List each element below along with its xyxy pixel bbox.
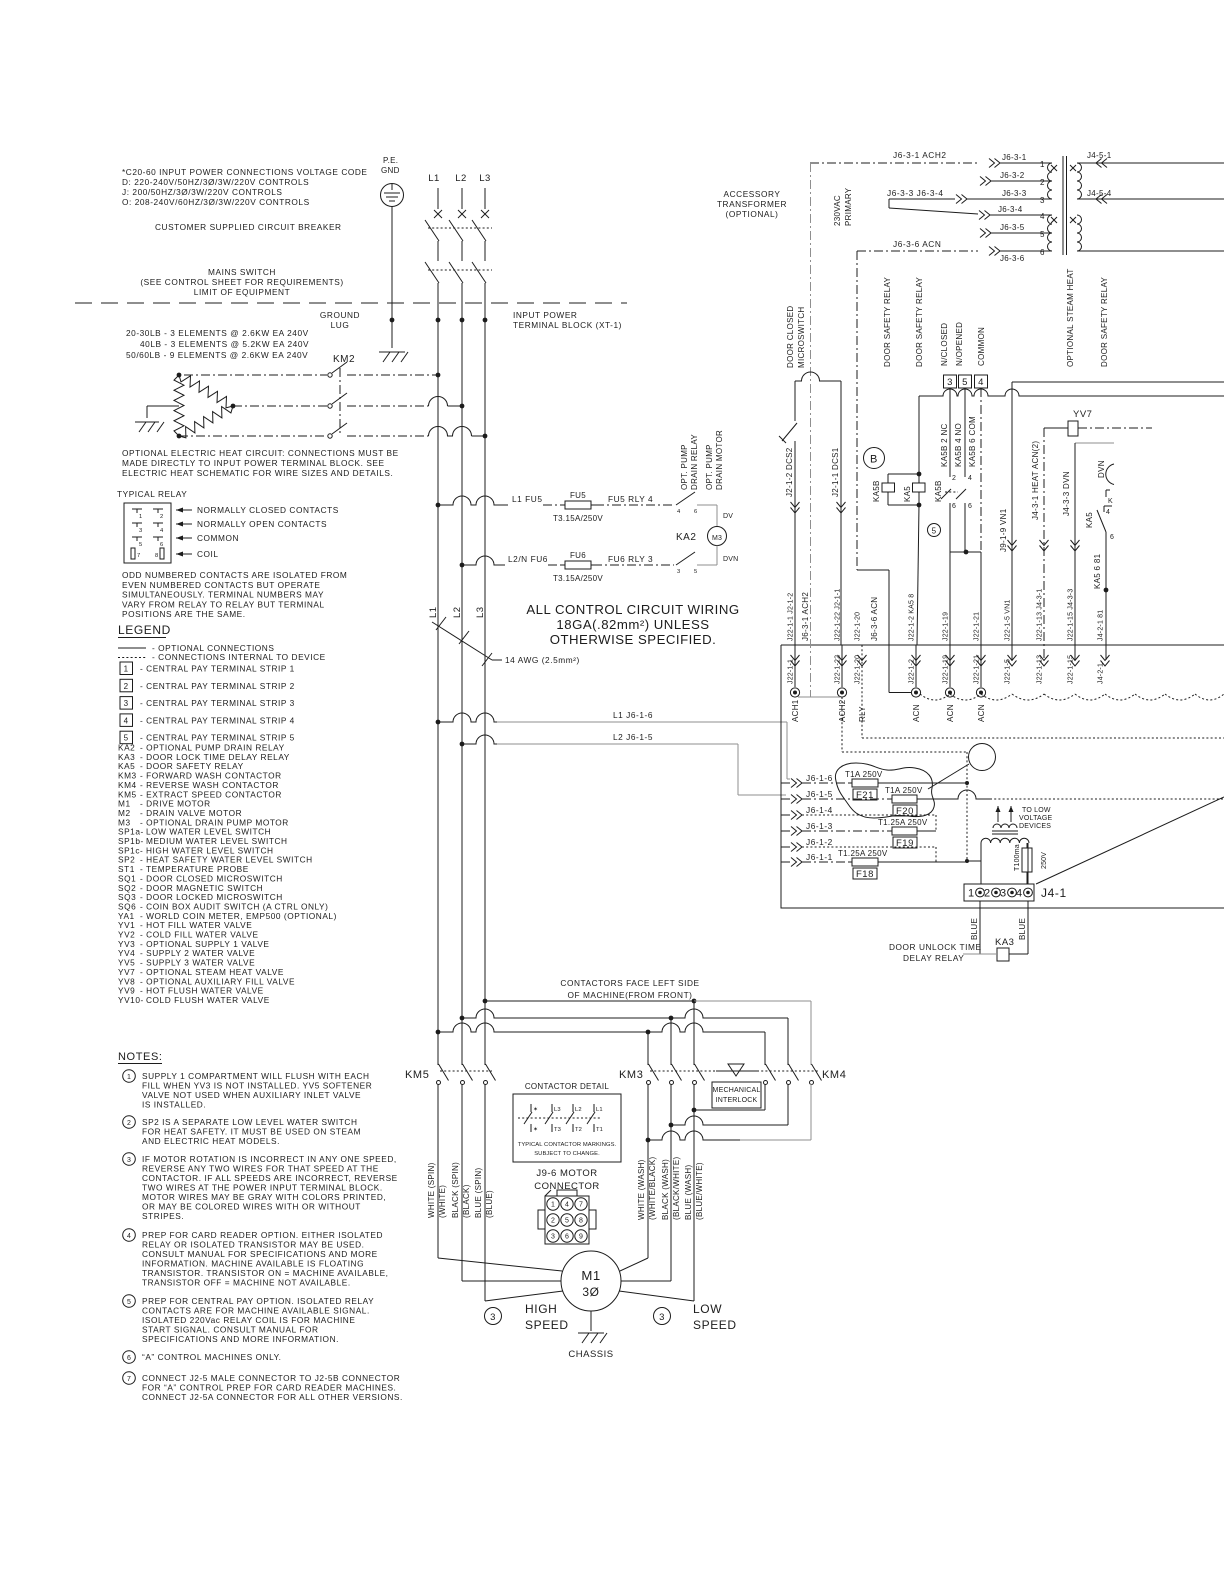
svg-text:SIMULTANEOUSLY. TERMINAL NUMBE: SIMULTANEOUSLY. TERMINAL NUMBERS MAY: [122, 590, 324, 600]
svg-text:J22-1-20: J22-1-20: [855, 655, 862, 684]
svg-text:J6-3-6 ACN: J6-3-6 ACN: [893, 239, 941, 249]
pin J4-2-1 entry chevron: [1101, 655, 1110, 666]
svg-text:GROUND: GROUND: [320, 310, 360, 320]
legend: internal connections sample: [118, 657, 146, 659]
wire ACH2 dash-dot vertical (gray): [810, 163, 812, 697]
circled number 5: [928, 524, 941, 537]
wire dash-dot to KA2 contact (row FU5): [595, 504, 674, 506]
svg-text:J22-1-15: J22-1-15: [1068, 655, 1075, 684]
fuse FU6: [565, 561, 591, 569]
svg-text:J22-1-1 J2-1-2: J22-1-1 J2-1-2: [788, 593, 795, 641]
svg-text:L1: L1: [428, 606, 439, 618]
svg-text:TRANSISTOR. TRANSISTOR ON = MA: TRANSISTOR. TRANSISTOR ON = MACHINE AVAI…: [142, 1268, 389, 1278]
pin J6-1-1 chevron: [791, 858, 802, 867]
svg-text:2: 2: [127, 1120, 131, 1127]
svg-text:NOTES:: NOTES:: [118, 1051, 163, 1063]
pin J22-1-15 entry chevron: [1071, 655, 1080, 666]
control board enclosure box: [781, 644, 1224, 646]
svg-text:MECHANICAL: MECHANICAL: [713, 1087, 761, 1094]
circled 3 low speed: [654, 1308, 671, 1325]
relay KA2 contact 4-6: [676, 492, 695, 505]
limit of equipment dashed boundary line: [75, 302, 627, 304]
svg-text:DOOR CLOSED: DOOR CLOSED: [786, 306, 795, 368]
svg-text:ACN: ACN: [946, 704, 955, 722]
svg-text:J6-3-1 ACH2: J6-3-1 ACH2: [893, 150, 947, 160]
svg-text:MAINS SWITCH: MAINS SWITCH: [208, 267, 276, 277]
svg-text:5: 5: [694, 569, 697, 575]
pin J6-3-5 chevron: [980, 229, 991, 238]
fuse F18 T1.25A 250V: [802, 861, 848, 863]
svg-text:J6-3-4: J6-3-4: [998, 205, 1023, 214]
svg-text:BLUE (SPIN): BLUE (SPIN): [474, 1168, 483, 1218]
contactor KM2 pole 2: [328, 404, 332, 408]
wire: KM2 pole3 to L3 (dash-dot, hops over L1 L2): [347, 435, 429, 437]
svg-text:START SIGNAL. CONSULT MANUAL F: START SIGNAL. CONSULT MANUAL FOR: [142, 1325, 319, 1335]
svg-text:MICROSWITCH: MICROSWITCH: [797, 306, 806, 368]
wire J4-3-1 HEAT ACN(2) dash-dot: [1043, 428, 1045, 660]
svg-text:- CONNECTIONS INTERNAL TO DEVI: - CONNECTIONS INTERNAL TO DEVICE: [152, 652, 326, 662]
wire J6-3-1 ACH2 dash-dot: [810, 162, 978, 164]
svg-text:4: 4: [1106, 509, 1110, 516]
relay coil pins 7 8: [131, 548, 135, 559]
svg-text:(SEE CONTROL SHEET FOR REQUIRE: (SEE CONTROL SHEET FOR REQUIREMENTS): [140, 277, 343, 287]
svg-text:3: 3: [490, 1312, 496, 1323]
wire J6-3-6 ACN dash-dot (top): [857, 250, 978, 252]
svg-text:DELAY RELAY: DELAY RELAY: [903, 953, 964, 963]
svg-text:T3.15A/250V: T3.15A/250V: [553, 514, 603, 523]
contactor detail box: [513, 1094, 621, 1162]
circuit breaker pole L3: [472, 220, 486, 241]
svg-text:L2: L2: [575, 1107, 582, 1113]
svg-text:N/OPENED: N/OPENED: [955, 322, 964, 366]
svg-text:7: 7: [137, 553, 140, 559]
svg-text:MADE DIRECTLY TO INPUT POWER T: MADE DIRECTLY TO INPUT POWER TERMINAL BL…: [122, 458, 385, 468]
svg-text:J22-1-13 J4-3-1: J22-1-13 J4-3-1: [1037, 589, 1044, 641]
svg-text:KA2: KA2: [676, 532, 696, 543]
svg-text:J6-3-5: J6-3-5: [1000, 223, 1025, 232]
svg-text:RELAY OR ISOLATED TRANSISTOR M: RELAY OR ISOLATED TRANSISTOR MAY BE USED…: [142, 1240, 365, 1250]
svg-text:KA5B 4 NO: KA5B 4 NO: [954, 423, 963, 467]
accessory transformer primary winding 4-6: [1048, 215, 1053, 251]
door closed microswitch SQ1: [794, 381, 796, 421]
relay legend arrow: common: [176, 537, 192, 539]
KA5B contact blades: [941, 489, 951, 499]
svg-text:J6-3-6 ACN: J6-3-6 ACN: [870, 597, 879, 641]
svg-text:2: 2: [160, 514, 163, 520]
svg-text:1: 1: [968, 888, 975, 900]
svg-text:5: 5: [124, 734, 129, 743]
circled letter B: [864, 448, 885, 469]
svg-text:T1A 250V: T1A 250V: [885, 786, 923, 795]
svg-text:OTHERWISE SPECIFIED.: OTHERWISE SPECIFIED.: [550, 632, 717, 647]
svg-text:ELECTRIC HEAT SCHEMATIC FOR WI: ELECTRIC HEAT SCHEMATIC FOR WIRE SIZES A…: [122, 468, 393, 478]
svg-text:2: 2: [551, 1218, 555, 1225]
svg-text:L2/N FU6: L2/N FU6: [508, 554, 548, 564]
wire J6-1-2 dotted: [802, 846, 936, 848]
KM3 pole outputs down to motor: [647, 1084, 649, 1258]
svg-text:OF MACHINE(FROM FRONT): OF MACHINE(FROM FRONT): [567, 990, 692, 1000]
svg-text:J4-2-1 81: J4-2-1 81: [1098, 610, 1105, 641]
pin J6-3-4 chevron: [979, 211, 990, 220]
svg-text:ALL CONTROL CIRCUIT WIRING: ALL CONTROL CIRCUIT WIRING: [526, 602, 739, 617]
svg-text:WHITE (WASH): WHITE (WASH): [637, 1159, 646, 1220]
svg-text:LEGEND: LEGEND: [118, 623, 171, 637]
svg-text:6: 6: [1110, 534, 1114, 541]
svg-text:MOTOR WIRES MAY BE GRAY WITH C: MOTOR WIRES MAY BE GRAY WITH COLORS PRIN…: [142, 1192, 386, 1202]
svg-text:DOOR SAFETY RELAY: DOOR SAFETY RELAY: [915, 276, 924, 367]
relay KA2 contact 3-5: [676, 552, 695, 565]
svg-text:- CENTRAL PAY TERMINAL STRIP 2: - CENTRAL PAY TERMINAL STRIP 2: [140, 681, 295, 691]
legend boxed terminal strip 3: [120, 697, 133, 710]
svg-text:KA5 6 81: KA5 6 81: [1093, 553, 1102, 589]
boxed terminal 5: [959, 375, 972, 388]
relay legend arrow: normally closed contacts: [176, 509, 192, 511]
note 6 circled number: [123, 1351, 136, 1364]
svg-text:OPTIONAL STEAM HEAT: OPTIONAL STEAM HEAT: [1066, 268, 1075, 367]
mains switch pole L1: [425, 262, 439, 283]
svg-text:6: 6: [694, 509, 697, 515]
svg-text:L3: L3: [479, 173, 491, 184]
svg-text:ISOLATED 220Vac RELAY COIL IS: ISOLATED 220Vac RELAY COIL IS FOR MACHIN…: [142, 1315, 355, 1325]
breaker terminal x-mark L3: [481, 210, 489, 218]
svg-text:WHITE (SPIN): WHITE (SPIN): [427, 1162, 436, 1218]
svg-text:KA5: KA5: [903, 486, 912, 502]
contactor KM5 pole 1: [437, 1081, 441, 1085]
wire stubs at pins: [794, 645, 796, 687]
svg-text:FU6: FU6: [570, 551, 586, 560]
callout blob around F21 F20: [835, 763, 934, 818]
wire J4-3-3 DVN: [1075, 442, 1114, 444]
svg-text:KA5B: KA5B: [872, 480, 881, 502]
connector J9-6 pins 1-9: [547, 1198, 559, 1210]
svg-text:J6-3-1 ACH2: J6-3-1 ACH2: [801, 592, 810, 641]
svg-text:GND: GND: [381, 166, 400, 175]
circled 3 high speed: [485, 1308, 502, 1325]
svg-text:VARY FROM RELAY TO RELAY BUT T: VARY FROM RELAY TO RELAY BUT TERMINAL: [122, 599, 325, 609]
svg-text:4: 4: [968, 475, 972, 482]
wire dash-dot to KA2 contact (row FU6): [593, 564, 674, 566]
svg-text:M1: M1: [581, 1268, 600, 1283]
wire: L1 tap to FU5 (hops L2,L3): [436, 503, 441, 508]
svg-text:BLACK (WASH): BLACK (WASH): [661, 1159, 670, 1220]
svg-text:J6-1-4: J6-1-4: [806, 805, 833, 815]
svg-text:- CENTRAL PAY TERMINAL STRIP 1: - CENTRAL PAY TERMINAL STRIP 1: [140, 664, 295, 674]
festoon dotted arcs along terminal row: [920, 694, 1224, 700]
wire: incoming lead L3: [484, 188, 486, 209]
svg-text:20-30LB - 3 ELEMENTS @ 2.6KW E: 20-30LB - 3 ELEMENTS @ 2.6KW EA 240V: [126, 328, 309, 338]
svg-text:LIMIT OF EQUIPMENT: LIMIT OF EQUIPMENT: [194, 287, 290, 297]
pin J22-1-19 entry chevron: [946, 655, 955, 666]
svg-text:CHASSIS: CHASSIS: [568, 1349, 613, 1360]
terminal ACN circle: [911, 688, 920, 697]
svg-text:6: 6: [952, 503, 956, 510]
svg-text:KA5: KA5: [1085, 512, 1094, 528]
svg-text:CONTACTOR. IF ALL SPEEDS ARE I: CONTACTOR. IF ALL SPEEDS ARE INCORRECT, …: [142, 1173, 398, 1183]
wire secondary bottom: [1077, 250, 1224, 252]
svg-text:- CENTRAL PAY TERMINAL STRIP 5: - CENTRAL PAY TERMINAL STRIP 5: [140, 733, 295, 743]
svg-text:IF MOTOR ROTATION IS INCORRECT: IF MOTOR ROTATION IS INCORRECT IN ANY ON…: [142, 1154, 397, 1164]
wire J4-5-4: [1077, 198, 1224, 200]
svg-text:KM2: KM2: [333, 354, 355, 365]
svg-text:L1: L1: [428, 173, 440, 184]
svg-text:1: 1: [139, 514, 142, 520]
note 2 circled number: [123, 1116, 136, 1129]
motor M1 wires from KM3: [620, 1258, 648, 1271]
legend boxed terminal strip 4: [120, 714, 133, 727]
mechanical interlock symbol: [716, 1070, 757, 1072]
svg-text:NORMALLY OPEN CONTACTS: NORMALLY OPEN CONTACTS: [197, 519, 327, 529]
wire gauge marker 14 AWG: [432, 622, 492, 660]
svg-text:L2: L2: [452, 606, 463, 618]
svg-text:J22-1-21: J22-1-21: [974, 612, 981, 641]
svg-text:J6-1-6: J6-1-6: [806, 773, 833, 783]
accessory transformer secondary winding 2: [1077, 215, 1082, 251]
legend boxed terminal strip 1: [120, 662, 133, 675]
svg-text:J4-1: J4-1: [1041, 886, 1067, 900]
relay coil KA5: [913, 483, 926, 492]
svg-text:LUG: LUG: [331, 320, 350, 330]
svg-text:DOOR SAFETY RELAY: DOOR SAFETY RELAY: [1100, 276, 1109, 367]
svg-text:ACH1: ACH1: [791, 699, 800, 722]
svg-text:DVN: DVN: [1097, 460, 1106, 478]
pin J6-1-6 chevron: [791, 779, 802, 788]
svg-text:(BLACK): (BLACK): [462, 1184, 471, 1218]
circuit breaker pole L2: [449, 220, 463, 241]
svg-text:ACCESSORY: ACCESSORY: [724, 189, 781, 199]
svg-text:T3.15A/250V: T3.15A/250V: [553, 574, 603, 583]
svg-text:J6-3-6: J6-3-6: [1000, 254, 1025, 263]
svg-text:9: 9: [579, 1234, 583, 1241]
wire: L1 to J6-1-6 (gray): [436, 720, 441, 725]
mains switch pole L3: [472, 262, 486, 283]
svg-text:SP2 IS A SEPARATE LOW LEVEL WA: SP2 IS A SEPARATE LOW LEVEL WATER SWITCH: [142, 1117, 357, 1127]
svg-text:DRAIN RELAY: DRAIN RELAY: [690, 434, 699, 490]
svg-text:ACN: ACN: [977, 704, 986, 722]
svg-text:J9-6 MOTOR: J9-6 MOTOR: [536, 1168, 597, 1179]
ground (heat circuit): [147, 405, 179, 407]
fuse F21 T1A 250V: [802, 782, 848, 784]
svg-text:KM3: KM3: [619, 1069, 643, 1081]
svg-text:DVN: DVN: [723, 556, 738, 563]
svg-text:7: 7: [127, 1376, 131, 1383]
bus rail 3 (L1 to KM3/KM4 pole1): [436, 1030, 441, 1035]
chassis ground: [590, 1311, 592, 1331]
svg-text:CONTACTS ARE FOR MACHINE AVAIL: CONTACTS ARE FOR MACHINE AVAILABLE SIGNA…: [142, 1306, 370, 1316]
svg-text:COIL: COIL: [197, 549, 219, 559]
svg-text:FILL WHEN YV3 IS NOT INSTALLED: FILL WHEN YV3 IS NOT INSTALLED. YV5 SOFT…: [142, 1081, 372, 1091]
wire: KA2 contact to M3 (DVN): [697, 564, 717, 566]
svg-text:DOOR UNLOCK TIME: DOOR UNLOCK TIME: [889, 942, 982, 952]
terminal ACH2 circle: [837, 688, 846, 697]
relay legend arrow: normally open contacts: [176, 523, 192, 525]
svg-text:AND ELECTRIC HEAT MODELS.: AND ELECTRIC HEAT MODELS.: [142, 1136, 280, 1146]
arrows to low voltage devices: [997, 806, 999, 822]
wire: incoming lead L1: [437, 188, 439, 209]
ground symbol P.E. protective earth circle: [381, 184, 404, 207]
contactor KM5 pole 2: [461, 1081, 465, 1085]
svg-text:2: 2: [1040, 178, 1045, 187]
svg-text:REVERSE ANY TWO WIRES FOR THAT: REVERSE ANY TWO WIRES FOR THAT SPEED AT …: [142, 1164, 379, 1174]
svg-text:TRANSFORMER: TRANSFORMER: [717, 199, 787, 209]
svg-text:1: 1: [1040, 160, 1045, 169]
svg-text:1: 1: [127, 1074, 131, 1081]
KA5B contact stack wires: [949, 388, 951, 477]
pin J22-1-5 entry chevron: [1008, 655, 1017, 666]
svg-text:J22-1-1: J22-1-1: [788, 659, 795, 684]
svg-text:PRIMARY: PRIMARY: [844, 187, 853, 226]
svg-text:T100ma: T100ma: [1014, 844, 1021, 871]
svg-text:J6-3-3: J6-3-3: [1002, 189, 1027, 198]
dotted RLY line inside box: [861, 645, 863, 738]
svg-text:J22-1-22 J2-1-1: J22-1-22 J2-1-1: [835, 589, 842, 641]
legend boxed terminal strip 5: [120, 731, 133, 744]
relay contact pair 3-4: [132, 522, 142, 524]
legend: optional connections sample: [118, 647, 146, 649]
bus rail 2 (L2 to KM3/KM4 pole2): [460, 1016, 465, 1021]
terminal ACH1 circle: [790, 688, 799, 697]
wire: J4-1 pin1 down (BLUE): [979, 901, 981, 954]
contactor KM2 pole 3: [328, 434, 332, 438]
svg-text:J22-1-13: J22-1-13: [1037, 655, 1044, 684]
KM5 tie (dotted): [440, 1070, 492, 1072]
wire: J4-1 pin4 down (BLUE): [1027, 901, 1029, 954]
svg-text:KA5B 6 COM: KA5B 6 COM: [968, 416, 977, 467]
contactor KM3 pole 2: [670, 1081, 674, 1085]
pin J22-1-21 entry chevron: [977, 655, 986, 666]
svg-text:FU5 RLY 4: FU5 RLY 4: [608, 494, 653, 504]
svg-text:TERMINAL BLOCK (XT-1): TERMINAL BLOCK (XT-1): [513, 320, 622, 330]
svg-text:230VAC: 230VAC: [833, 195, 842, 226]
svg-text:✶: ✶: [533, 1106, 538, 1113]
svg-text:TYPICAL CONTACTOR MARKINGS.: TYPICAL CONTACTOR MARKINGS.: [518, 1142, 617, 1148]
svg-text:J6-1-2: J6-1-2: [806, 837, 833, 847]
svg-text:P.E.: P.E.: [383, 156, 398, 165]
svg-text:J22-1-15 J4-3-3: J22-1-15 J4-3-3: [1068, 589, 1075, 641]
svg-text:2: 2: [124, 682, 129, 691]
wire: KM2 pole1 to L1 (dash-dot): [347, 374, 438, 376]
contactor KM4 pole 2: [787, 1081, 791, 1085]
note 3 circled number: [123, 1153, 136, 1166]
svg-text:OPT. PUMP: OPT. PUMP: [705, 444, 714, 490]
breaker terminal x-mark L1: [434, 210, 442, 218]
wire KA5 coil feed from bumped rail: [918, 396, 920, 474]
svg-text:J4-2-1: J4-2-1: [1098, 663, 1105, 684]
wire: L3 vertical feeder: [484, 320, 486, 1065]
svg-text:J2-1-2 DCS2: J2-1-2 DCS2: [785, 447, 794, 497]
wire from VN1 corner to right edge: [1012, 381, 1224, 383]
svg-text:FU6 RLY 3: FU6 RLY 3: [608, 554, 653, 564]
terminal ACN circle: [945, 688, 954, 697]
svg-text:INPUT POWER: INPUT POWER: [513, 310, 577, 320]
svg-text:KA5B 2 NC: KA5B 2 NC: [940, 423, 949, 467]
svg-text:(WHITE): (WHITE): [438, 1185, 447, 1218]
svg-text:3: 3: [677, 569, 680, 575]
connector J4-1 box: [964, 884, 1034, 901]
svg-text:3: 3: [947, 377, 953, 388]
pin J22-1-13 entry chevron: [1040, 655, 1049, 666]
svg-text:KM4: KM4: [822, 1069, 846, 1081]
svg-text:KM5: KM5: [405, 1069, 429, 1081]
contactor KM5 pole 3: [484, 1081, 488, 1085]
svg-text:L3: L3: [475, 606, 486, 618]
svg-text:ACN: ACN: [912, 704, 921, 722]
polarity x marks: [1051, 165, 1057, 171]
svg-text:PREP FOR CENTRAL PAY OPTION. I: PREP FOR CENTRAL PAY OPTION. ISOLATED RE…: [142, 1296, 374, 1306]
relay KA5B coil rails: [888, 473, 919, 475]
svg-text:IS INSTALLED.: IS INSTALLED.: [142, 1100, 206, 1110]
svg-text:FU5: FU5: [570, 491, 586, 500]
pin J22-1-2 entry chevron: [912, 655, 921, 666]
relay legend arrow: coil: [176, 553, 192, 555]
svg-text:“A” CONTROL MACHINES ONLY.: “A” CONTROL MACHINES ONLY.: [142, 1352, 282, 1362]
svg-text:J4-3-1 HEAT ACN(2): J4-3-1 HEAT ACN(2): [1031, 441, 1040, 520]
terminal ACN circle: [976, 688, 985, 697]
callout detail circle: [969, 744, 996, 771]
KM3/interlock/KM4 tie (dotted): [650, 1070, 716, 1072]
wire dash-dot into fuse FU6: [548, 564, 561, 566]
svg-text:D: 220-240V/50HZ/3Ø/3W/220V CO: D: 220-240V/50HZ/3Ø/3W/220V CONTROLS: [122, 177, 309, 187]
svg-text:T3: T3: [554, 1127, 561, 1133]
svg-text:4: 4: [127, 1233, 131, 1240]
wire J6-3-6 ACN dash-dot vertical: [856, 251, 858, 570]
pin J6-1-4 chevron: [791, 811, 802, 820]
svg-text:LOW: LOW: [693, 1302, 722, 1316]
note 5 circled number: [123, 1295, 136, 1308]
pin J22-1-20 entry chevron: [858, 655, 867, 666]
wire dash-dot into fuse FU5: [543, 504, 561, 506]
svg-text:1: 1: [124, 665, 129, 674]
svg-text:HIGH: HIGH: [525, 1302, 557, 1316]
svg-text:J9-1-9 VN1: J9-1-9 VN1: [999, 508, 1008, 552]
svg-text:TRANSISTOR OFF = MACHINE NOT A: TRANSISTOR OFF = MACHINE NOT AVAILABLE.: [142, 1278, 351, 1288]
transformer T (to low voltage devices) secondary: [993, 824, 1017, 828]
contactor KM4 pole 1: [764, 1081, 768, 1085]
relay contact pair 1-2: [132, 508, 142, 510]
svg-text:6: 6: [1040, 248, 1045, 257]
wire: PE down to ground lug: [391, 207, 393, 349]
svg-text:6: 6: [127, 1355, 131, 1362]
svg-text:5: 5: [962, 377, 968, 388]
svg-text:T1A 250V: T1A 250V: [845, 770, 883, 779]
svg-text:L1 J6-1-6: L1 J6-1-6: [613, 710, 653, 720]
diagonal pointer from J4-1: [1036, 797, 1224, 884]
svg-text:OR MAY BE COLORED WIRES WITH O: OR MAY BE COLORED WIRES WITH OR WITHOUT: [142, 1202, 361, 1212]
wire: L2 vertical feeder: [461, 320, 463, 1065]
boxed terminal 3: [944, 375, 957, 388]
accessory transformer secondary winding 1: [1077, 163, 1082, 199]
svg-text:3: 3: [659, 1312, 665, 1323]
svg-text:N/CLOSED: N/CLOSED: [940, 323, 949, 366]
svg-text:50/60LB - 9 ELEMENTS @ 2.6KW E: 50/60LB - 9 ELEMENTS @ 2.6KW EA 240V: [126, 350, 308, 360]
pin J6-3-2 chevron: [980, 177, 991, 186]
contactor detail contacts: [530, 1104, 532, 1112]
svg-text:5: 5: [565, 1218, 569, 1225]
svg-text:YV7: YV7: [1073, 409, 1092, 420]
svg-text:BLUE: BLUE: [970, 918, 979, 940]
svg-text:T1: T1: [596, 1127, 603, 1133]
svg-text:B: B: [870, 454, 878, 466]
svg-text:O: 208-240V/60HZ/3Ø/3W/220V CO: O: 208-240V/60HZ/3Ø/3W/220V CONTROLS: [122, 197, 310, 207]
note 7 circled number: [123, 1372, 136, 1385]
wire: KA2 contact to M3 (DV): [697, 504, 717, 506]
svg-text:SPEED: SPEED: [693, 1318, 737, 1332]
svg-text:PREP FOR CARD READER OPTION. E: PREP FOR CARD READER OPTION. EITHER ISOL…: [142, 1230, 383, 1240]
contactor KM2 pole 1: [328, 373, 332, 377]
svg-text:BLUE (WASH): BLUE (WASH): [684, 1165, 693, 1220]
connector J9-6 body: [545, 1196, 589, 1244]
transformer core: [1062, 156, 1064, 255]
svg-text:DV: DV: [723, 513, 733, 520]
